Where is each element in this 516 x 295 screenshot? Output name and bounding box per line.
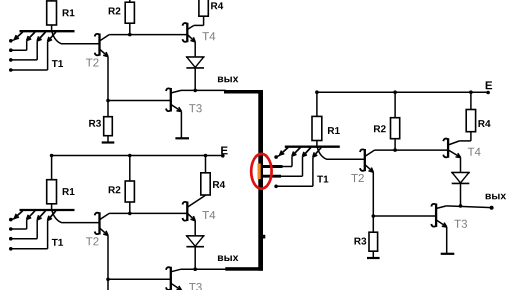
transistor T3 (gate 3) — [431, 204, 446, 228]
label T1 (gate 1) — [52, 60, 63, 67]
label R4 (gate 2) — [213, 181, 225, 188]
label R3 (gate 3) — [354, 238, 366, 245]
label R4 (gate 1) — [211, 2, 223, 9]
transistor T1 base bar (gate 2) — [20, 209, 75, 211]
highlight orange mark on bus — [258, 164, 261, 180]
label T4 (gate 1) — [202, 32, 215, 40]
transistor T1 emitter 1 (gate 1) — [14, 32, 22, 40]
wire R1 to T1 base bar (gate 2) — [51, 204, 53, 211]
label T2 (gate 2) — [86, 237, 99, 245]
input 1 wire with terminal dot (gate 1) — [9, 39, 15, 43]
diode VD (gate 3) — [451, 173, 469, 184]
wire junction to T3 base (gate 2) — [108, 278, 171, 280]
transistor T1 emitter 3 (gate 1) — [37, 32, 45, 41]
input 3 wire tied to bus (gate 3) — [263, 157, 303, 177]
wire R2 to T2 collector net (gate 3) — [394, 139, 396, 150]
wire T3 emitter to ground (gate 3) — [446, 227, 448, 253]
input 4 wire with terminal dot (gate 2) — [9, 221, 48, 251]
wire T4 emitter to diode (gate 1) — [194, 42, 196, 57]
wire rail to R2 (gate 2) — [129, 156, 131, 182]
transistor T1 emitter 4 (gate 1) — [48, 32, 56, 42]
wire diode to output (gate 3) — [460, 183, 462, 206]
transistor T1 emitter 3 (gate 2) — [37, 211, 45, 220]
transistor T3 (gate 1) — [166, 88, 181, 112]
label R3 (gate 1) — [89, 120, 101, 127]
wire T1 collector to T2 base (gate 2) — [52, 211, 100, 223]
ground under R3 (gate 3) — [367, 257, 380, 259]
node T2e-R3-T3 junction (gate 2) — [106, 278, 110, 282]
node T2e-R3-T3 junction (gate 3) — [372, 214, 376, 218]
node diode-output junction (gate 3) — [459, 204, 463, 208]
wire rail to R4 (gate 2) — [205, 156, 207, 173]
node diode-output junction (gate 2) — [193, 267, 197, 271]
transistor T1 emitter 3 (gate 3) — [303, 148, 311, 157]
transistor T4 (gate 1) — [183, 23, 196, 43]
wire junction to R3 (gate 3) — [372, 216, 374, 232]
wire T2 emitter to R3/T3 node (gate 1) — [107, 57, 109, 101]
wire T1 collector to T2 base (gate 3) — [317, 147, 365, 159]
wire T4 emitter to diode (gate 2) — [194, 221, 196, 236]
resistor R4 (gate 2) — [201, 173, 210, 195]
resistor R1 (gate 1) — [47, 1, 57, 25]
label output ВЫХ (gate 2) — [218, 255, 238, 261]
diode VD (gate 2) — [186, 236, 204, 247]
transistor T1 emitter 4 (gate 3) — [313, 148, 321, 158]
label output ВЫХ (gate 1) — [218, 77, 238, 83]
wire +E power rail (gate 3) — [317, 91, 488, 93]
label R1 (gate 3) — [328, 127, 340, 134]
wire +E power rail (gate 2) — [52, 155, 223, 157]
label T3 (gate 3) — [454, 220, 467, 228]
resistor R1 (gate 3) — [312, 116, 322, 140]
input 2 wire with terminal dot (gate 1) — [9, 41, 27, 52]
transistor T1 emitter 1 (gate 2) — [14, 211, 22, 219]
wire T1 collector to T2 base (gate 1) — [52, 32, 100, 44]
wire R1 to T1 base bar (gate 3) — [316, 141, 318, 148]
label R2 (gate 3) — [374, 125, 386, 132]
label T4 (gate 2) — [202, 211, 215, 219]
label E supply (gate 3) — [486, 81, 492, 89]
node E terminal (gate 2) — [221, 154, 225, 158]
ground under R3 (gate 1) — [102, 141, 115, 143]
wire T2 emitter to R3/T3 node (gate 2) — [107, 235, 109, 279]
node diode-output junction (gate 1) — [193, 89, 197, 93]
label T1 (gate 3) — [317, 176, 328, 183]
wire output to terminal (gate 3) — [446, 206, 491, 208]
wire T4 emitter to diode (gate 3) — [460, 157, 462, 172]
wire rail to R2 (gate 1) — [129, 0, 131, 2]
wire thick bus from gate1 output (top segment) — [224, 90, 263, 94]
wire T2 emitter to R3/T3 node (gate 3) — [372, 172, 374, 216]
wire R1 to T1 base bar (gate 1) — [51, 25, 53, 32]
label T1 (gate 2) — [52, 239, 63, 246]
label R4 (gate 3) — [478, 120, 490, 127]
wire junction to R3 (gate 2) — [107, 279, 109, 295]
input 3 wire with terminal dot (gate 2) — [9, 220, 37, 241]
transistor T1 base bar (gate 3) — [285, 146, 340, 148]
wire T2 collector to T4 base (gate 2) — [109, 212, 187, 214]
node T2e-R3-T3 junction (gate 1) — [106, 99, 110, 103]
wire T3 emitter to ground (gate 2) — [180, 290, 182, 295]
transistor T2 (gate 1) — [95, 34, 110, 57]
input 4 wire with terminal dot (gate 1) — [9, 42, 48, 72]
resistor R2 (gate 3) — [391, 118, 400, 139]
wire T2 collector to T4 base (gate 3) — [375, 149, 449, 151]
resistor R3 (gate 1) — [104, 117, 113, 136]
wire R3 to ground (gate 3) — [372, 251, 374, 257]
wire rail to R1 (gate 2) — [51, 156, 53, 180]
label E supply (gate 2) — [221, 146, 227, 154]
wire rail to R1 (gate 3) — [316, 92, 318, 116]
transistor T1 emitter 4 (gate 2) — [48, 211, 56, 221]
input 4 wire with terminal dot (gate 3) — [274, 157, 313, 188]
input 1 wire with terminal dot (gate 3) — [274, 155, 280, 159]
node rail-R2 junction (gate 2) — [128, 154, 132, 158]
resistor R2 (gate 1) — [125, 2, 134, 23]
ground under T3 (gate 3) — [441, 253, 455, 255]
wire rail to R2 (gate 3) — [394, 92, 396, 118]
node output terminal dot (gate 3) — [490, 206, 494, 210]
label T4 (gate 3) — [468, 148, 481, 156]
wire diode to output (gate 2) — [194, 247, 196, 270]
node rail-R1 junction (gate 3) — [315, 90, 319, 94]
wire junction to T3 base (gate 1) — [108, 100, 171, 102]
label output ВЫХ (gate 3) — [486, 194, 506, 200]
transistor T2 (gate 3) — [360, 149, 375, 172]
diode VD (gate 1) — [186, 57, 204, 68]
node rail-R4 junction (gate 2) — [204, 154, 208, 158]
label T2 (gate 1) — [86, 58, 99, 66]
wire diode to output (gate 1) — [194, 68, 196, 91]
transistor T1 emitter 2 (gate 1) — [27, 32, 35, 41]
input 2 wire with terminal dot (gate 2) — [9, 220, 27, 231]
wire thick bus vertical segment — [258, 90, 263, 271]
transistor T3 (gate 2) — [166, 267, 181, 291]
wire thick bus from gate2 output (bottom segment) — [225, 267, 263, 271]
transistor T1 emitter 1 (gate 3) — [280, 148, 288, 156]
wire rail to R1 (gate 1) — [51, 0, 53, 1]
label T2 (gate 3) — [351, 174, 364, 182]
label R1 (gate 2) — [63, 188, 75, 195]
wire R4 to T4 collector (gate 3) — [459, 132, 471, 141]
wire output (gate 2) — [181, 268, 226, 270]
wire junction to T3 base (gate 3) — [373, 215, 436, 217]
resistor R4 (gate 1) — [199, 0, 208, 16]
annotation red ellipse — [251, 154, 271, 189]
node R2-T2-T4 junction (gate 3) — [393, 148, 397, 152]
transistor T2 (gate 2) — [95, 212, 110, 235]
wire junction to R3 (gate 1) — [107, 101, 109, 117]
wire rail to R4 (gate 3) — [470, 92, 472, 109]
node R2-T2-T4 junction (gate 2) — [128, 212, 132, 216]
wire T3 emitter to ground (gate 1) — [180, 111, 182, 137]
resistor R3 (gate 3) — [369, 232, 378, 251]
transistor T1 emitter 2 (gate 3) — [292, 148, 300, 157]
node E terminal (gate 3) — [486, 91, 490, 95]
wire R2 to T2 collector net (gate 2) — [129, 202, 131, 213]
node rail-R2 junction (gate 3) — [393, 90, 397, 94]
node small tap on bus — [263, 235, 265, 239]
node rail-R1 junction (gate 2) — [50, 154, 54, 158]
transistor T1 emitter 2 (gate 2) — [27, 211, 35, 220]
transistor T1 base bar (gate 1) — [20, 30, 75, 32]
node rail-R4 junction (gate 3) — [469, 90, 473, 94]
ground under T3 (gate 1) — [175, 137, 189, 139]
wire R2 to T2 collector net (gate 1) — [129, 23, 131, 34]
label R2 (gate 2) — [109, 186, 121, 193]
input 1 wire with terminal dot (gate 2) — [9, 218, 15, 222]
transistor T4 (gate 2) — [183, 195, 206, 221]
wire T2 collector to T4 base (gate 1) — [109, 34, 187, 36]
label R1 (gate 1) — [63, 9, 75, 16]
transistor T4 (gate 3) — [443, 138, 460, 158]
wire R3 to ground (gate 1) — [107, 136, 109, 142]
node R2-T2-T4 junction (gate 1) — [128, 33, 132, 37]
input 2 wire tied to bus (gate 3) — [263, 156, 292, 166]
label R2 (gate 1) — [109, 7, 121, 14]
label T3 (gate 2) — [189, 283, 202, 291]
label T3 (gate 1) — [189, 104, 202, 112]
wire output (gate 1) — [181, 89, 226, 91]
resistor R1 (gate 2) — [47, 180, 57, 204]
resistor R2 (gate 2) — [125, 181, 134, 202]
resistor R4 (gate 3) — [466, 110, 475, 132]
wire R4 to T4 collector (gate 1) — [194, 16, 204, 25]
input 3 wire with terminal dot (gate 1) — [9, 41, 37, 62]
